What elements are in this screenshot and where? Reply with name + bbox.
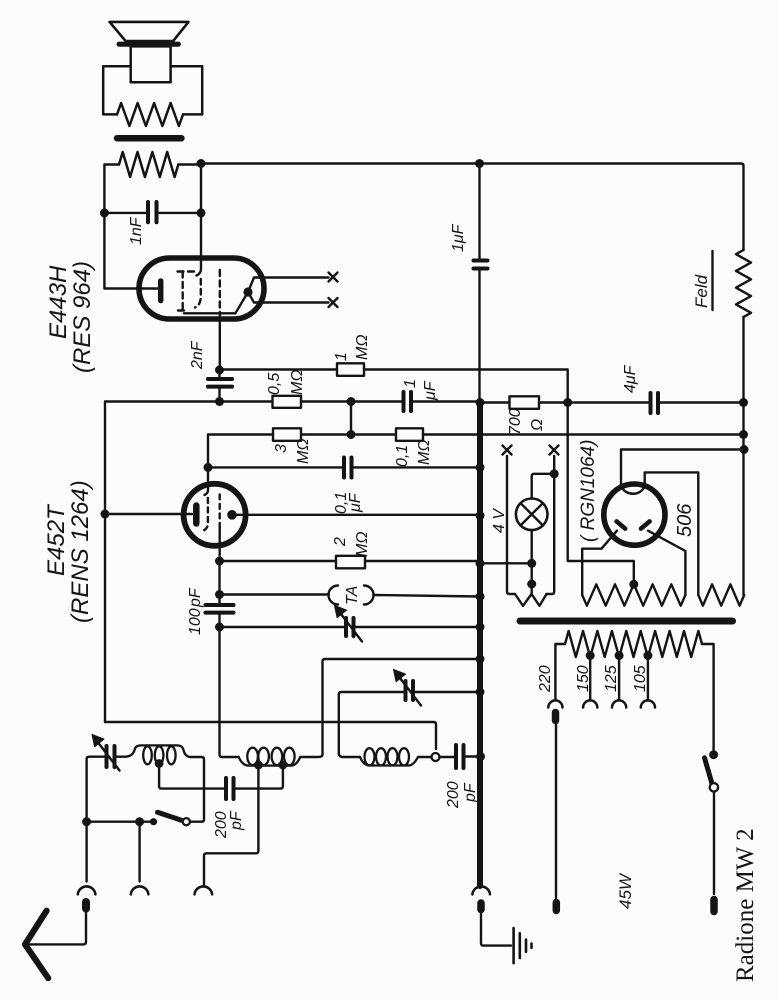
wire top anode rail bbox=[201, 164, 744, 251]
switch mains pivot circle bbox=[710, 783, 718, 791]
wire varcap row y=627 bbox=[220, 626, 345, 628]
svg-text:0,1: 0,1 bbox=[394, 445, 411, 467]
variable capacitor C-tune2 bbox=[404, 681, 408, 700]
speaker flange bar bbox=[119, 42, 178, 47]
wire TA row left bbox=[220, 561, 329, 595]
junction L2 tap right bbox=[279, 761, 288, 770]
svg-text:(RENS 1264): (RENS 1264) bbox=[67, 480, 94, 623]
junction lamp bottom row bbox=[527, 559, 536, 568]
svg-text:2: 2 bbox=[332, 537, 349, 547]
wire TA row right to bus bbox=[373, 595, 480, 597]
junction bus 200pF row bbox=[476, 752, 485, 761]
E443H cathode bar bbox=[158, 281, 164, 301]
wire node to 1nF row bbox=[200, 164, 202, 213]
Feld label underline bbox=[711, 251, 713, 310]
svg-text:TA: TA bbox=[344, 586, 361, 605]
resistor 700 Ohm bbox=[510, 396, 540, 409]
socket antenna 3 bbox=[195, 886, 213, 894]
ground symbol bbox=[512, 928, 515, 963]
E443H anode plate bbox=[184, 312, 235, 314]
pickup jack TA right arc bbox=[364, 586, 374, 605]
svg-text:100 pF: 100 pF bbox=[187, 587, 204, 635]
svg-text:Ω: Ω bbox=[529, 419, 546, 431]
junction 3M/0.1M row node bbox=[347, 430, 356, 439]
wire trimmer to L1 bbox=[117, 756, 127, 758]
junction lamp top bbox=[550, 469, 559, 478]
tube E452T envelope bbox=[184, 484, 246, 546]
svg-text:( RGN1064): ( RGN1064) bbox=[578, 440, 599, 542]
capacitor 0,1uF bbox=[342, 458, 346, 478]
wire tap 150 bbox=[589, 657, 591, 701]
junction bus 2M row bbox=[476, 559, 485, 568]
wire anode 1 lead bbox=[621, 450, 744, 488]
switch antenna lever bbox=[158, 812, 183, 820]
junction L1 tap bbox=[155, 759, 164, 768]
lamp 4V dial light bbox=[516, 499, 548, 531]
socket 220 bbox=[548, 700, 562, 707]
svg-text:MΩ: MΩ bbox=[289, 370, 306, 396]
socket 105 bbox=[641, 700, 655, 707]
wire 1M row bbox=[220, 368, 338, 371]
junction lamp column lower bbox=[527, 580, 536, 589]
wire 3M left lead to grid column bbox=[208, 435, 273, 468]
E443H anode contact dot bbox=[243, 287, 252, 296]
wire switch to mains prong right bbox=[713, 792, 715, 894]
socket 125 bbox=[612, 700, 626, 707]
svg-text:μF: μF bbox=[347, 492, 364, 513]
capacitor 100pF bbox=[206, 603, 234, 607]
wire 0.1M row right to right rail bbox=[423, 433, 744, 435]
svg-text:4μF: 4μF bbox=[622, 364, 639, 393]
svg-text:(RES 964): (RES 964) bbox=[69, 261, 96, 373]
E452T grid lead bbox=[205, 467, 209, 495]
junction bus TA row bbox=[476, 592, 485, 601]
wire E452T anode row to bus bbox=[232, 514, 480, 516]
variable capacitor C-tune1 bbox=[344, 618, 348, 636]
wire E443H to terminal x upper bbox=[248, 278, 329, 293]
transformer core bar bbox=[520, 618, 733, 625]
inductor L2 bbox=[239, 757, 301, 766]
svg-text:E452T: E452T bbox=[43, 503, 70, 576]
svg-text:125: 125 bbox=[603, 665, 620, 692]
junction transformer/top-rail bbox=[197, 159, 206, 168]
svg-text:1μF: 1μF bbox=[450, 223, 467, 252]
svg-text:0,5: 0,5 bbox=[266, 373, 283, 395]
wire primary right lead to top rail bbox=[178, 163, 201, 165]
svg-text:2nF: 2nF bbox=[189, 340, 206, 370]
junction bus row 659 bbox=[476, 655, 485, 664]
wire tap 105 bbox=[647, 657, 649, 701]
mains prong right bbox=[710, 900, 718, 912]
wire antenna plug to aerial bbox=[27, 912, 86, 944]
capacitor 1uF coupling bbox=[402, 392, 406, 411]
wire socket2 drop bbox=[138, 822, 140, 882]
wire 220 plug down to mains prong bbox=[555, 724, 557, 898]
junction TA row tube column bbox=[215, 590, 224, 599]
wire lamp top lead bbox=[532, 474, 555, 499]
svg-text:220: 220 bbox=[537, 665, 554, 693]
junction 1nF right bbox=[197, 208, 206, 217]
wire grid row y=401 left end down bbox=[105, 402, 220, 723]
junction 0.5M / 1uF node bbox=[347, 397, 356, 406]
RGN1064 filament pins bbox=[617, 521, 626, 528]
wire 1M row right to B+ corner bbox=[364, 370, 568, 403]
wire L2 tap left down to output row bbox=[204, 765, 258, 886]
aerial symbol bbox=[25, 911, 48, 978]
bus plug pin bbox=[477, 903, 485, 910]
wire tap 125 bbox=[618, 657, 620, 701]
E452T anode dot bbox=[227, 510, 237, 520]
output transformer primary winding bbox=[119, 152, 178, 177]
socket antenna 1 bbox=[78, 886, 96, 894]
switch antenna pivot circle bbox=[183, 818, 190, 825]
resistor 1 MOhm bbox=[337, 363, 364, 376]
svg-text:MΩ: MΩ bbox=[416, 440, 433, 466]
speaker LS cone bbox=[110, 22, 189, 41]
junction varcap row tube column bbox=[215, 623, 224, 632]
E452T cathode bar bbox=[193, 506, 200, 524]
wire 0.5M to node bbox=[301, 400, 351, 402]
junction left column E452T row bbox=[101, 510, 110, 519]
mains prong left bbox=[553, 903, 561, 911]
terminal x upper bbox=[329, 273, 338, 282]
output transformer frame bbox=[103, 66, 131, 114]
svg-text:E443H: E443H bbox=[45, 265, 72, 339]
chassis bus thick bbox=[477, 402, 483, 886]
chassis bus thin top segment bbox=[478, 164, 480, 259]
junction trimmer column row bbox=[82, 817, 91, 826]
junction right rail anode row bbox=[740, 445, 749, 454]
junction mains switch top bbox=[709, 750, 718, 759]
svg-text:1nF: 1nF bbox=[128, 216, 145, 245]
junction bus varcap row bbox=[476, 623, 485, 632]
wire 700 Ohm to 4uF node bbox=[539, 401, 649, 403]
wire E452T cathode row from left column bbox=[105, 513, 192, 515]
wire L2 right lead rise bbox=[300, 755, 322, 758]
wire primary left lead to 220 socket bbox=[555, 644, 565, 700]
wire 1nF node down to E443H cathode bbox=[104, 213, 158, 289]
RGN1064 top notch bbox=[622, 488, 644, 494]
junction bus B+ row bbox=[476, 398, 485, 407]
wire antenna terminal row bbox=[87, 821, 153, 823]
wire 2M to bus bbox=[365, 560, 480, 562]
wire lamp row to bus bbox=[480, 562, 532, 564]
inductor L3 bbox=[360, 757, 418, 766]
wire L3 right to terminal bbox=[418, 756, 431, 758]
wire 100pF column down to L2 bbox=[220, 627, 239, 757]
switch antenna contact dot bbox=[150, 818, 157, 825]
bus socket bbox=[472, 886, 490, 894]
wire B+ row right of bus bbox=[480, 401, 510, 403]
svg-text:105: 105 bbox=[632, 665, 649, 692]
svg-text:Radione MW 2: Radione MW 2 bbox=[732, 828, 759, 982]
terminal x lower bbox=[329, 298, 338, 307]
wire L3 left lead bbox=[339, 753, 360, 757]
wire L2 tap right to 200pF bbox=[236, 765, 283, 789]
svg-text:pF: pF bbox=[462, 782, 479, 803]
wire E452T bottom lead bbox=[218, 527, 220, 561]
svg-text:506: 506 bbox=[674, 503, 696, 537]
wire bus plug to ground bbox=[481, 913, 511, 946]
wire row y=723 antenna feed bbox=[105, 722, 436, 749]
E443H grid3 dashed bbox=[219, 270, 221, 313]
resistor 2 MOhm bbox=[336, 556, 365, 569]
wire 2M row bbox=[220, 560, 337, 562]
wire filament left lead bbox=[582, 531, 617, 595]
wire row y=401 to 0.5M bbox=[220, 400, 273, 402]
wire trimmer left lead down bbox=[87, 757, 105, 822]
wire right rail Feld to B+ node bbox=[742, 317, 744, 595]
junction mains tap 150 bbox=[586, 651, 595, 660]
wire anode 2 lead bbox=[645, 472, 699, 595]
wire filament right lead bbox=[648, 531, 685, 595]
inductor L1 antenna coil bbox=[126, 745, 190, 757]
svg-text:1: 1 bbox=[402, 379, 419, 388]
capacitor 200pF left bbox=[224, 778, 228, 799]
junction bus row 692 bbox=[476, 688, 485, 697]
wire 3M to 0.1M row bbox=[301, 433, 396, 435]
junction 2nF bottom bbox=[215, 397, 224, 406]
capacitor 2nF bbox=[208, 377, 232, 381]
switch mains lever bbox=[705, 758, 712, 783]
junction 2nF top bbox=[215, 366, 224, 375]
junction 700 Ohm / B+ node bbox=[563, 398, 572, 407]
E452T grid2 dashed bbox=[218, 494, 220, 527]
E443H anode tap diagonal bbox=[235, 292, 248, 313]
svg-text:700: 700 bbox=[507, 408, 524, 435]
wire primary left lead down to 1nF node bbox=[104, 165, 119, 213]
svg-text:1: 1 bbox=[333, 352, 350, 361]
antenna plug pin bbox=[82, 902, 90, 909]
capacitor 1nF bbox=[146, 202, 150, 222]
wire lamp bottom lead bbox=[531, 530, 533, 594]
tube RGN1064 envelope bbox=[604, 484, 665, 545]
svg-text:MΩ: MΩ bbox=[295, 439, 312, 465]
capacitor 1uF decoupling top bbox=[474, 259, 488, 263]
junction right rail 0.1M row bbox=[739, 430, 748, 439]
pickup jack TA left arc bbox=[329, 586, 339, 605]
E443H anode lead out bbox=[219, 313, 221, 370]
svg-text:pF: pF bbox=[228, 810, 245, 831]
junction bus anode row bbox=[476, 511, 485, 520]
E443H control grid dashed bbox=[195, 279, 201, 308]
junction top rail / bus column bbox=[475, 159, 484, 168]
tube E443H envelope bbox=[139, 258, 264, 319]
svg-text:MΩ: MΩ bbox=[354, 335, 371, 361]
E443H grid lead bbox=[197, 213, 202, 276]
E452T control grid dashed bbox=[204, 498, 208, 531]
svg-text:200: 200 bbox=[445, 781, 462, 809]
svg-text:150: 150 bbox=[575, 665, 592, 692]
wire B+ drop to rectifier filament center tap bbox=[568, 403, 634, 585]
junction mains tap 105 bbox=[643, 651, 652, 660]
output transformer core bbox=[117, 135, 181, 142]
variable trimmer capacitor antenna bbox=[105, 746, 109, 767]
svg-text:45W: 45W bbox=[616, 872, 635, 909]
terminal x lamp right bbox=[550, 446, 559, 455]
svg-text:4 V: 4 V bbox=[491, 508, 508, 533]
svg-text:3: 3 bbox=[273, 444, 290, 453]
terminal circle L3 bbox=[432, 753, 440, 761]
wire row y=692 to varcap2 bbox=[415, 691, 480, 693]
svg-text:μF: μF bbox=[422, 380, 439, 401]
junction right rail 4uF bbox=[739, 398, 748, 407]
capacitor 4uF bbox=[649, 393, 653, 413]
junction rectifier filament center tap bbox=[629, 580, 638, 589]
svg-text:MΩ: MΩ bbox=[354, 532, 371, 558]
junction grid leak node bbox=[204, 463, 213, 472]
wire node column 351 bbox=[350, 402, 352, 435]
junction 1nF left bbox=[100, 208, 109, 217]
resistor 0,1 MOhm bbox=[396, 428, 423, 441]
socket 150 bbox=[583, 700, 597, 707]
junction 2M row tube column bbox=[215, 557, 224, 566]
resistor 3 MOhm bbox=[273, 428, 301, 441]
socket antenna 2 bbox=[131, 886, 149, 894]
winding mains primary bbox=[565, 631, 702, 657]
output transformer secondary winding bbox=[117, 103, 183, 126]
junction bus 0.1uF row bbox=[476, 463, 485, 472]
speaker magnet block bbox=[131, 46, 171, 82]
wire lamp left column bbox=[507, 456, 515, 594]
svg-text:Feld: Feld bbox=[692, 274, 711, 308]
winding rectifier filament bbox=[582, 584, 685, 605]
wire row y=659 L2 top to bus bbox=[323, 659, 481, 755]
resistor 0,5 MOhm bbox=[273, 396, 302, 408]
winding HV secondary bbox=[698, 584, 744, 605]
junction socket2 row bbox=[135, 817, 144, 826]
wire E443H to terminal x lower bbox=[248, 292, 329, 303]
junction L2 tap left bbox=[254, 761, 263, 770]
capacitor 200pF right bbox=[454, 745, 458, 768]
E443H screen grid dashed bbox=[178, 270, 196, 272]
terminal x lamp left bbox=[503, 446, 512, 455]
wire L1 right lead down to switch bbox=[190, 757, 204, 822]
wire socket1 drop bbox=[85, 822, 87, 882]
junction mains tap 125 bbox=[615, 651, 624, 660]
resistor Feld field coil bbox=[736, 250, 751, 317]
wire primary right lead to mains switch bbox=[702, 644, 714, 755]
wire lamp right column bbox=[553, 456, 555, 474]
mains plug pin at 220 bbox=[552, 713, 560, 721]
winding 4V pilot W bbox=[515, 594, 547, 606]
